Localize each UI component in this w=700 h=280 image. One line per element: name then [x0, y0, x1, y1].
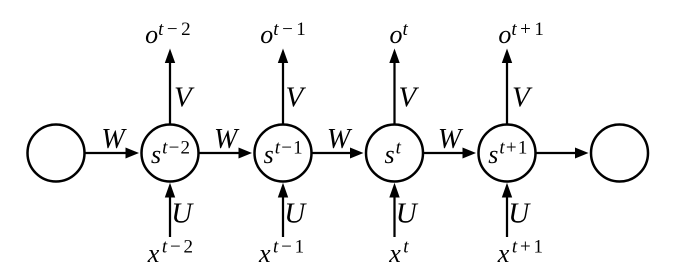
svg-text:W: W	[327, 124, 353, 155]
svg-text:W: W	[438, 124, 464, 155]
svg-text:ot−1: ot−1	[260, 19, 309, 49]
wire arrow U (up) into s t	[389, 183, 399, 237]
wire arrow U (up) into s t-2	[165, 183, 175, 237]
node circle right (empty)	[591, 125, 648, 182]
wire arrow W4 (s t to s t+1)	[423, 148, 476, 159]
wire arrow (s t+1 to right circle)	[536, 148, 589, 159]
node circle s t-2	[142, 125, 199, 182]
node circle left (empty)	[28, 125, 85, 182]
svg-text:V: V	[286, 82, 307, 114]
wire arrow W1 (left circle to s t-2)	[85, 148, 140, 159]
svg-text:W: W	[214, 124, 240, 155]
svg-text:xt+1: xt+1	[497, 237, 546, 269]
svg-text:ot+1: ot+1	[498, 19, 547, 49]
node circle s t+1	[479, 125, 536, 182]
wire arrow V (up) at s t	[389, 49, 399, 125]
wire arrow U (up) into s t-1	[278, 183, 288, 237]
svg-text:xt−1: xt−1	[258, 237, 307, 269]
wire arrow V (up) at s t+1	[502, 49, 512, 125]
svg-text:xt−2: xt−2	[147, 237, 196, 269]
svg-text:xt: xt	[388, 237, 409, 269]
svg-text:ot: ot	[390, 19, 409, 49]
svg-text:U: U	[508, 198, 531, 230]
svg-text:U: U	[284, 198, 307, 230]
svg-text:U: U	[396, 198, 419, 230]
svg-text:V: V	[512, 82, 533, 114]
wire arrow W3 (s t-1 to s t)	[312, 148, 364, 159]
node circle s t	[366, 125, 423, 182]
wire arrow V (up) at s t-1	[278, 49, 288, 125]
wire arrow V (up) at s t-2	[165, 49, 175, 125]
svg-text:V: V	[399, 82, 420, 114]
svg-text:ot−2: ot−2	[145, 19, 194, 49]
wire arrow U (up) into s t+1	[502, 183, 512, 237]
node circle s t-1	[255, 125, 312, 182]
wire arrow W2 (s t-2 to s t-1)	[199, 148, 253, 159]
svg-text:W: W	[101, 124, 127, 155]
svg-text:U: U	[171, 198, 194, 230]
svg-text:V: V	[174, 82, 195, 114]
